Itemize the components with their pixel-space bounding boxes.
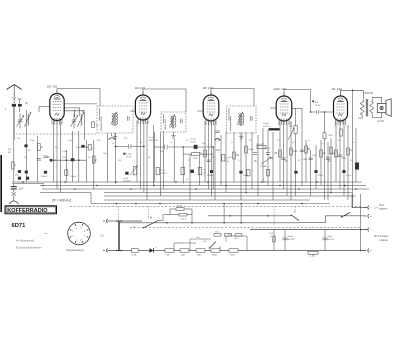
svg-text:2 V: 2 V bbox=[375, 206, 379, 209]
svg-text:3M: 3M bbox=[307, 149, 310, 151]
svg-text:kΩ: kΩ bbox=[226, 161, 229, 163]
svg-text:50µF: 50µF bbox=[318, 175, 324, 177]
svg-text:1M: 1M bbox=[274, 153, 277, 155]
svg-text:DK 191: DK 191 bbox=[47, 85, 58, 89]
svg-text:DAF 191: DAF 191 bbox=[274, 87, 286, 91]
svg-text:150~: 150~ bbox=[234, 238, 239, 240]
svg-text:100pF: 100pF bbox=[70, 176, 77, 178]
svg-text:1M: 1M bbox=[326, 157, 329, 159]
svg-text:10M: 10M bbox=[293, 151, 298, 153]
svg-text:−: − bbox=[370, 228, 372, 232]
svg-text:14Ω: 14Ω bbox=[166, 255, 170, 257]
svg-text:0,5M: 0,5M bbox=[302, 159, 307, 161]
svg-text:−: − bbox=[370, 206, 372, 210]
svg-text:B: B bbox=[150, 216, 152, 220]
svg-text:Am Netzanschluß: Am Netzanschluß bbox=[16, 240, 35, 243]
svg-text:Sockelschaltung: Sockelschaltung bbox=[66, 249, 84, 252]
svg-text:0,5M: 0,5M bbox=[330, 153, 335, 155]
svg-text:1 MΩ: 1 MΩ bbox=[328, 135, 333, 137]
svg-text:500µF: 500µF bbox=[263, 123, 270, 125]
svg-text:0,1 W: 0,1 W bbox=[378, 120, 385, 123]
svg-text:12pF: 12pF bbox=[68, 140, 73, 142]
svg-text:TA: TA bbox=[25, 101, 28, 105]
svg-text:KOFFERRADIO: KOFFERRADIO bbox=[7, 208, 48, 214]
svg-text:700Ω: 700Ω bbox=[230, 255, 236, 257]
svg-text:0,1µF: 0,1µF bbox=[248, 149, 254, 151]
svg-text:300pF: 300pF bbox=[264, 148, 271, 150]
svg-text:25 kV: 25 kV bbox=[191, 141, 197, 143]
svg-text:50 µF: 50 µF bbox=[149, 137, 155, 139]
svg-text:+: + bbox=[370, 214, 372, 218]
svg-text:25 kV: 25 kV bbox=[126, 156, 132, 158]
svg-text:50µF: 50µF bbox=[62, 157, 68, 159]
svg-text:kΩ: kΩ bbox=[263, 182, 266, 184]
svg-text:0,5 MΩ: 0,5 MΩ bbox=[260, 166, 267, 168]
svg-text:2 MΩ: 2 MΩ bbox=[193, 158, 198, 160]
svg-text:50µF: 50µF bbox=[243, 175, 249, 177]
svg-text:125~: 125~ bbox=[203, 241, 208, 243]
svg-text:200Ω: 200Ω bbox=[177, 206, 183, 208]
svg-text:100pF: 100pF bbox=[41, 176, 48, 178]
svg-text:140Ω: 140Ω bbox=[212, 255, 218, 257]
svg-text:5µF: 5µF bbox=[19, 187, 24, 190]
svg-text:25µF: 25µF bbox=[346, 175, 352, 177]
svg-text:14Ω: 14Ω bbox=[181, 255, 185, 257]
svg-text:220~: 220~ bbox=[228, 234, 233, 236]
svg-text:500µF: 500µF bbox=[288, 236, 295, 238]
svg-text:2M: 2M bbox=[94, 160, 97, 162]
svg-text:5 40/2,5Ω: 5 40/2,5Ω bbox=[363, 92, 373, 95]
svg-text:batterie: batterie bbox=[380, 239, 389, 242]
svg-text:74Ω: 74Ω bbox=[197, 255, 201, 257]
svg-text:6D/15V: 6D/15V bbox=[288, 239, 296, 241]
svg-text:60/70V: 60/70V bbox=[328, 239, 335, 241]
svg-text:0,1A: 0,1A bbox=[132, 253, 137, 256]
svg-text:ZF = 468 kHz: ZF = 468 kHz bbox=[51, 199, 72, 203]
svg-text:1M: 1M bbox=[118, 160, 121, 162]
svg-text:50µF: 50µF bbox=[328, 236, 334, 238]
svg-text:kΩ: kΩ bbox=[164, 172, 167, 174]
svg-text:0,1µF: 0,1µF bbox=[126, 154, 132, 156]
svg-text:6D71: 6D71 bbox=[12, 223, 27, 229]
svg-text:B Synchronbusleinwerter: B Synchronbusleinwerter bbox=[16, 247, 42, 250]
svg-text:kΩ: kΩ bbox=[243, 182, 246, 184]
svg-text:40µF: 40µF bbox=[76, 147, 82, 149]
svg-text:2 kΩ: 2 kΩ bbox=[310, 256, 315, 258]
svg-text:110~: 110~ bbox=[196, 237, 201, 239]
svg-text:100pF: 100pF bbox=[207, 175, 214, 177]
svg-text:70/125V: 70/125V bbox=[123, 181, 131, 183]
svg-text:0,1µF: 0,1µF bbox=[62, 151, 68, 153]
svg-text:batterie: batterie bbox=[379, 208, 388, 211]
svg-text:25Ω: 25Ω bbox=[215, 231, 219, 233]
svg-text:25 µF: 25 µF bbox=[191, 139, 197, 141]
svg-text:40µF: 40µF bbox=[30, 140, 36, 142]
svg-text:6D/15 V: 6D/15 V bbox=[263, 126, 271, 128]
svg-text:+: + bbox=[370, 249, 372, 253]
svg-text:25 kV: 25 kV bbox=[315, 105, 321, 107]
svg-text:2M: 2M bbox=[236, 155, 239, 157]
svg-text:Anoden-: Anoden- bbox=[380, 235, 390, 238]
svg-text:DF 191: DF 191 bbox=[135, 86, 145, 90]
svg-text:500 Ω: 500 Ω bbox=[181, 219, 187, 221]
svg-text:DF 191: DF 191 bbox=[203, 86, 213, 90]
